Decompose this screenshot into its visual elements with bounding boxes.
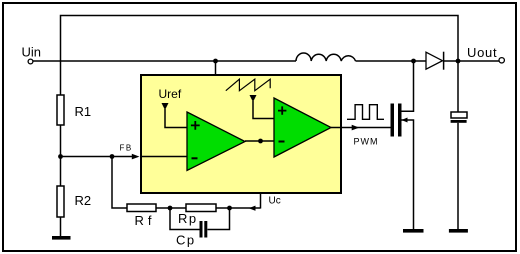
wire Uc vertical [260,141,262,209]
node Uin terminal [28,59,33,64]
svg-text:PWM: PWM [354,137,379,147]
op-amp U1 error amplifier [187,112,245,171]
PWM square wave symbol [347,105,384,120]
op-amp U2 comparator [274,98,331,157]
capacitor Cout [457,61,459,112]
svg-text:Uc: Uc [269,196,281,207]
resistor Rp [186,204,216,212]
node drain junction [411,59,416,64]
svg-text:R2: R2 [75,193,92,208]
wire diode to Uout [444,60,500,62]
svg-text:Uout: Uout [467,45,497,60]
node FB junction on divider [58,154,63,159]
node output junction [456,59,461,64]
ground (MOSFET source) [403,229,424,233]
node Uref arrow [162,103,169,110]
transistor Q1 MOSFET channel bar [398,104,402,137]
wire PWM arrow [352,125,360,131]
node Uout terminal [499,58,504,63]
wire drain [402,61,414,111]
wire top bypass [61,16,459,62]
wire Rf to node [156,207,186,209]
wire Uc arrow [249,206,256,211]
node Rf/Rp junction [168,206,173,211]
svg-text:R1: R1 [75,104,92,119]
sawtooth oscillator symbol [226,79,270,91]
node FB branch junction [110,154,115,159]
wire supply drop to controller [215,61,217,75]
node supply junction on Uin rail [213,59,218,64]
transistor Q1 MOSFET gate bar [391,104,395,137]
resistor R2 [60,157,62,186]
svg-text:Uin: Uin [22,45,42,60]
sawtooth arrow [250,95,257,102]
ground (output cap) [449,229,468,233]
ground (divider) [52,236,71,240]
resistor Rf [127,204,156,212]
wire FB arrow into controller [132,154,140,160]
resistor R1 [60,61,62,95]
wire U1 output to comparator [245,140,274,142]
diode D1 [426,52,443,69]
controller block (yellow) [141,75,341,193]
wire source with body arrow [402,118,408,123]
svg-text:Cp: Cp [176,233,196,248]
wire Rp to node [216,207,261,209]
wire FB inside to U1 [141,156,187,158]
wire inductor to diode [356,60,427,62]
svg-text:Rp: Rp [178,211,198,226]
svg-text:FB: FB [120,144,133,153]
node Uc junction [258,139,263,144]
wire FB branch down to Rf [112,157,127,209]
wire PWM output [331,127,391,129]
svg-text:Rf: Rf [135,213,156,228]
svg-text:Uref: Uref [159,87,182,101]
inductor L [296,53,356,61]
wire Uin main rail [33,60,296,62]
node Rp right junction [227,206,232,211]
capacitor Cp [170,208,200,230]
wire FB horizontal [61,156,135,158]
